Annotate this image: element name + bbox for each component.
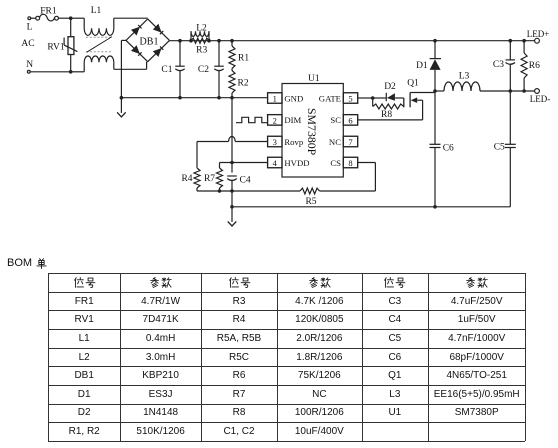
pin name Rovp bbox=[284, 137, 303, 147]
capacitor C1 bbox=[161, 41, 184, 98]
node C2 top bbox=[217, 39, 221, 43]
svg-text:GATE: GATE bbox=[319, 93, 341, 103]
pin name DIM bbox=[284, 115, 301, 125]
svg-text:D1: D1 bbox=[416, 61, 428, 71]
node C3 top bbox=[509, 39, 513, 43]
pin name GND bbox=[284, 93, 303, 103]
capacitor C2 bbox=[198, 41, 224, 98]
capacitor C6 bbox=[430, 91, 455, 207]
wire Rovp bbox=[197, 137, 268, 169]
svg-text:5: 5 bbox=[348, 93, 352, 103]
pin 6 bbox=[343, 115, 357, 126]
varistor RV1 bbox=[47, 18, 77, 72]
node C1 bottom bbox=[178, 96, 182, 100]
ground main bbox=[228, 207, 237, 226]
svg-text:DIM: DIM bbox=[284, 115, 301, 125]
svg-text:SC: SC bbox=[330, 115, 341, 125]
wire DC+ rail bbox=[170, 40, 535, 42]
wire LED- line bbox=[480, 90, 535, 92]
svg-text:AC: AC bbox=[21, 39, 34, 49]
node R2 bottom bbox=[230, 96, 234, 100]
U1 part number bbox=[305, 108, 319, 156]
svg-text:C4: C4 bbox=[240, 176, 251, 186]
node bridge-gnd bbox=[120, 96, 124, 100]
terminal LED+ bbox=[527, 29, 550, 43]
svg-text:SM7380P: SM7380P bbox=[305, 108, 319, 156]
svg-text:R5: R5 bbox=[305, 197, 316, 207]
wire N to L1 bbox=[71, 71, 85, 73]
svg-text:4: 4 bbox=[273, 158, 278, 168]
node R1 top bbox=[230, 39, 234, 43]
pin name CS bbox=[330, 158, 341, 168]
wire bridge minus bbox=[121, 40, 126, 97]
svg-text:L1: L1 bbox=[91, 6, 102, 16]
svg-text:7: 7 bbox=[348, 137, 352, 147]
pin name HVDD bbox=[284, 158, 309, 168]
transistor Q1 bbox=[358, 79, 435, 120]
wire L to L1 bbox=[71, 17, 85, 19]
svg-text:L2: L2 bbox=[196, 24, 207, 34]
wire HVDD vertical bbox=[231, 98, 233, 173]
svg-text:R7: R7 bbox=[204, 174, 215, 184]
resistor R5 bbox=[300, 188, 320, 207]
svg-text:C1: C1 bbox=[161, 65, 172, 75]
wire node line bbox=[197, 190, 300, 192]
node C3 bottom bbox=[509, 89, 513, 93]
svg-text:U1: U1 bbox=[308, 74, 320, 84]
svg-text:8: 8 bbox=[348, 158, 352, 168]
svg-text:6: 6 bbox=[348, 115, 352, 125]
resistor R6 bbox=[521, 41, 540, 91]
resistor R8 bbox=[373, 98, 404, 120]
svg-text:N: N bbox=[26, 60, 33, 70]
wire bottom rail bbox=[232, 206, 510, 208]
node R7 bottom bbox=[218, 189, 222, 193]
svg-text:NC: NC bbox=[329, 137, 341, 147]
svg-text:L: L bbox=[27, 23, 33, 33]
wire GATE bbox=[358, 97, 373, 99]
svg-text:C6: C6 bbox=[443, 144, 454, 154]
terminal N bbox=[26, 60, 70, 73]
pin 4 bbox=[268, 157, 282, 168]
wire gnd rail bbox=[121, 97, 267, 99]
svg-text:HVDD: HVDD bbox=[284, 158, 309, 168]
wire R5 to CS bbox=[320, 163, 376, 192]
node C2 bottom bbox=[217, 96, 221, 100]
node R6 bottom bbox=[522, 89, 526, 93]
label AC bbox=[21, 39, 34, 49]
diode D2 bbox=[373, 82, 404, 101]
svg-text:R8: R8 bbox=[381, 110, 392, 120]
fuse resistor FR1 bbox=[31, 7, 71, 21]
svg-text:C3: C3 bbox=[493, 60, 504, 70]
svg-text:CS: CS bbox=[330, 158, 341, 168]
node J1 bbox=[69, 16, 73, 73]
svg-text:R1: R1 bbox=[238, 54, 249, 64]
terminal LED- bbox=[530, 89, 551, 104]
bridge rectifier DB1 bbox=[126, 19, 170, 62]
pin 2 bbox=[268, 115, 282, 126]
pin 7 bbox=[343, 136, 357, 147]
resistor R4 bbox=[181, 168, 200, 191]
BOM title bbox=[7, 257, 47, 269]
capacitor C5 bbox=[494, 91, 516, 207]
op-amp U1 outline bbox=[282, 74, 343, 177]
svg-text:Rovp: Rovp bbox=[284, 137, 303, 147]
svg-text:GND: GND bbox=[284, 93, 303, 103]
node C4 bottom bbox=[230, 189, 234, 193]
svg-text:R2: R2 bbox=[238, 79, 249, 89]
svg-text:R6: R6 bbox=[529, 61, 540, 71]
pin 8 bbox=[343, 157, 357, 168]
capacitor C4 bbox=[227, 176, 251, 192]
common-mode choke L1 bbox=[84, 6, 114, 72]
svg-text:C2: C2 bbox=[198, 65, 209, 75]
terminal L bbox=[27, 17, 33, 33]
svg-text:LED-: LED- bbox=[530, 94, 551, 104]
BOM table bbox=[0, 0, 1, 1]
svg-text:RV1: RV1 bbox=[47, 43, 64, 53]
wire to bottom rail bbox=[231, 191, 233, 207]
svg-text:3: 3 bbox=[273, 137, 277, 147]
capacitor C3 bbox=[493, 41, 515, 91]
node switch bbox=[433, 89, 437, 93]
node D1 top bbox=[433, 39, 437, 43]
svg-text:1: 1 bbox=[273, 93, 277, 103]
svg-text:L3: L3 bbox=[459, 72, 470, 82]
resistor R1 bbox=[229, 41, 249, 69]
ground input bbox=[117, 98, 126, 117]
wire L1 to bridge bottom bbox=[114, 62, 148, 70]
node gate bbox=[371, 96, 375, 100]
svg-text:R3: R3 bbox=[196, 46, 207, 56]
wire L1 to bridge top bbox=[114, 17, 148, 19]
svg-text:C5: C5 bbox=[494, 143, 505, 153]
pin name SC bbox=[330, 115, 341, 125]
resistor R2 bbox=[229, 69, 249, 98]
pin name GATE bbox=[319, 93, 341, 103]
node gnd2 bbox=[230, 205, 234, 209]
wire HVDD left bbox=[220, 163, 268, 169]
svg-text:LED+: LED+ bbox=[527, 29, 550, 39]
svg-text:2: 2 bbox=[273, 115, 277, 125]
node C1 top bbox=[178, 39, 182, 43]
pin 3 bbox=[268, 136, 282, 147]
node R6 top bbox=[522, 39, 526, 43]
inductor L3 bbox=[435, 72, 480, 92]
node C6 bottom bbox=[433, 205, 437, 209]
node HVDD bbox=[230, 161, 234, 165]
pin 1 bbox=[268, 93, 282, 104]
resistor R7 bbox=[204, 168, 223, 191]
svg-text:D2: D2 bbox=[384, 82, 396, 92]
diode D1 bbox=[416, 41, 441, 91]
pin 5 bbox=[343, 93, 357, 104]
svg-text:Q1: Q1 bbox=[407, 79, 419, 89]
resistor R3 bbox=[191, 38, 209, 55]
pin name NC bbox=[329, 137, 341, 147]
svg-text:DB1: DB1 bbox=[140, 36, 159, 47]
svg-text:R4: R4 bbox=[181, 174, 192, 184]
svg-text:FR1: FR1 bbox=[40, 7, 57, 17]
inductor L2 bbox=[189, 24, 211, 43]
PWM dimming symbol bbox=[236, 117, 268, 122]
